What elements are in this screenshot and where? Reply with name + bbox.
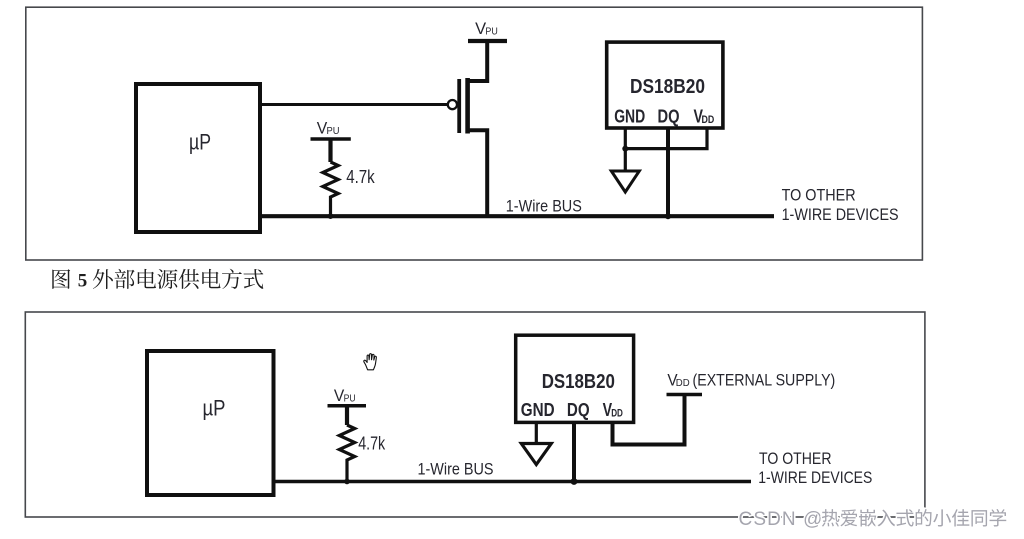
svg-text:DD: DD — [611, 408, 623, 420]
1-Wire bus wire (figure 1) — [260, 214, 774, 218]
svg-text:(EXTERNAL SUPPLY): (EXTERNAL SUPPLY) — [693, 370, 836, 389]
svg-text:DQ: DQ — [658, 106, 680, 126]
VDD pin wire U2 to external supply (figure 2) — [613, 396, 685, 445]
DS18B20 U1 box (figure 1) — [607, 42, 723, 128]
svg-text:DD: DD — [676, 377, 690, 389]
Vpu label (MOSFET rail, figure 1) — [475, 19, 498, 38]
junction dot DQ/bus (figure 2) — [571, 478, 578, 485]
1-Wire BUS label (figure 2) — [418, 460, 494, 479]
svg-text:PU: PU — [327, 125, 340, 137]
junction dot GND/VDD tie (figure 1) — [622, 146, 628, 152]
svg-text:PU: PU — [344, 393, 356, 405]
figure 1 frame — [26, 7, 923, 260]
DS18B20 U2 box (figure 2) — [516, 335, 634, 422]
svg-text:1-WIRE DEVICES: 1-WIRE DEVICES — [782, 205, 899, 224]
DQ pin wire U2 to bus (figure 2) — [572, 422, 576, 481]
svg-text:DS18B20: DS18B20 — [630, 75, 705, 98]
resistor R 4.7k (figure 2) — [339, 425, 385, 482]
DQ pin wire U1 to bus (figure 1) — [666, 128, 670, 216]
svg-text:GND: GND — [521, 400, 555, 420]
GND pin wire U2 (figure 2) — [535, 422, 538, 443]
CSDN watermark — [739, 509, 1007, 530]
svg-text:1-Wire BUS: 1-Wire BUS — [506, 197, 582, 216]
caption: Figure 5 external power supply mode (Chinese) — [52, 269, 263, 292]
Vpu label (resistor, figure 1) — [317, 118, 340, 137]
svg-text:DQ: DQ — [567, 400, 590, 420]
VDD pin wire U1 tied to GND (figure 1) — [625, 128, 707, 149]
1-Wire BUS label (figure 1) — [506, 197, 582, 216]
svg-text:1-Wire BUS: 1-Wire BUS — [418, 460, 494, 479]
Vpu power bar (MOSFET, figure 1) — [468, 39, 507, 43]
svg-text:DD: DD — [702, 114, 715, 126]
svg-text:TO OTHER: TO OTHER — [782, 186, 856, 205]
svg-text:5: 5 — [78, 271, 88, 292]
svg-text:µP: µP — [189, 130, 211, 155]
resistor R 4.7k (figure 1) — [323, 162, 376, 216]
GND pin wire U1 (figure 1) — [624, 128, 627, 171]
svg-text:TO OTHER: TO OTHER — [759, 449, 832, 468]
microprocessor uP box (figure 1) — [136, 84, 260, 232]
junction dot resistor/bus (figure 2) — [344, 479, 350, 485]
svg-text:1-WIRE DEVICES: 1-WIRE DEVICES — [758, 468, 872, 487]
svg-text:DS18B20: DS18B20 — [542, 370, 615, 393]
microprocessor uP box (figure 2) — [147, 351, 274, 495]
junction dot DQ/bus (figure 1) — [665, 213, 671, 219]
VDD external supply power bar (figure 2) — [667, 393, 703, 396]
junction dot resistor/bus (figure 1) — [328, 213, 334, 219]
MOSFET Q1 (figure 1) — [448, 43, 487, 216]
svg-text:4.7k: 4.7k — [346, 166, 375, 187]
svg-text:µP: µP — [203, 395, 226, 420]
figure 2 frame — [25, 312, 925, 517]
hand cursor — [364, 354, 377, 370]
Vpu power bar (resistor, figure 1) — [311, 139, 351, 162]
ground symbol (figure 2) — [521, 444, 551, 465]
TO OTHER 1-WIRE DEVICES label (figure 1) — [782, 186, 899, 225]
ground symbol (figure 1) — [611, 171, 639, 192]
VDD (EXTERNAL SUPPLY) label (figure 2) — [667, 370, 835, 389]
wire uP to MOSFET gate (figure 1) — [260, 103, 447, 106]
TO OTHER 1-WIRE DEVICES label (figure 2) — [758, 449, 872, 487]
Vpu label (resistor, figure 2) — [334, 386, 356, 405]
svg-text:PU: PU — [485, 25, 497, 37]
Vpu power bar (resistor, figure 2) — [328, 406, 367, 425]
svg-text:4.7k: 4.7k — [358, 433, 386, 454]
svg-text:GND: GND — [614, 106, 645, 126]
1-Wire bus wire (figure 2) — [274, 480, 752, 483]
svg-text:CSDN @: CSDN @ — [739, 509, 824, 530]
